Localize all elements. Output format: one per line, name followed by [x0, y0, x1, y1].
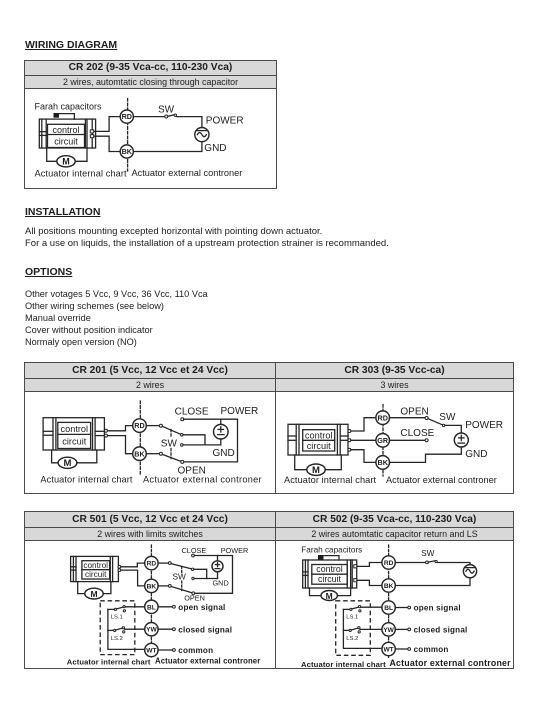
- wire actuator to RD: [108, 426, 133, 431]
- node OPEN: [192, 592, 195, 595]
- wire motor right: [77, 450, 97, 463]
- node RD: [382, 556, 395, 569]
- svg-text:GND: GND: [465, 449, 487, 460]
- actuator body: [288, 424, 348, 455]
- limit switch LS.1: [343, 608, 349, 610]
- heading OPTIONS: [25, 266, 72, 278]
- limit switch LS.1: [108, 608, 114, 610]
- capacitor C1: [318, 555, 324, 560]
- wire motor right: [75, 148, 87, 161]
- svg-text:SW: SW: [421, 548, 435, 558]
- wire RD to switch: [146, 425, 159, 427]
- wire source to BK: [390, 447, 462, 462]
- svg-text:BL: BL: [147, 604, 156, 611]
- svg-text:M: M: [62, 157, 70, 167]
- wire actuator to BK: [108, 436, 133, 454]
- control circuit block U1: [82, 561, 110, 579]
- wire capacitor to actuator: [59, 114, 75, 120]
- svg-text:RD: RD: [384, 560, 394, 567]
- terminal block pins: [354, 565, 357, 568]
- node CLOSE: [192, 554, 195, 557]
- wire motor left: [310, 588, 322, 596]
- wire BL to signal: [158, 606, 173, 608]
- table CR 201 / CR 303: [24, 362, 514, 494]
- terminal block pins: [90, 130, 93, 133]
- svg-text:open signal: open signal: [178, 603, 225, 612]
- motor M: [307, 464, 325, 475]
- wire YW to signal: [395, 628, 408, 630]
- capacitor C1: [54, 113, 60, 118]
- dashed separator internal/external: [382, 405, 384, 477]
- svg-text:control: control: [305, 430, 333, 440]
- node A: [191, 568, 193, 570]
- svg-text:control: control: [316, 564, 342, 574]
- wire CLOSE to OPEN power rail: [194, 556, 232, 594]
- node BK: [145, 579, 158, 592]
- wire motor left: [295, 455, 307, 470]
- switch SW: [425, 417, 428, 420]
- svg-text:circuit: circuit: [318, 574, 342, 584]
- svg-text:OPEN: OPEN: [184, 594, 205, 603]
- svg-text:Actuator internal chart: Actuator internal chart: [40, 474, 133, 484]
- svg-text:closed signal: closed signal: [178, 625, 232, 634]
- DC source G1: [212, 561, 223, 572]
- svg-text:Farah capacitors: Farah capacitors: [301, 546, 362, 555]
- wire motor right: [103, 582, 111, 594]
- node B: [192, 577, 194, 579]
- AC source G1: [463, 565, 476, 578]
- node BK: [376, 456, 390, 470]
- svg-text:Actuator external controner: Actuator external controner: [143, 474, 262, 484]
- wire capacitor to actuator: [323, 556, 339, 560]
- svg-text:BL: BL: [384, 605, 393, 612]
- switch SW pole 1: [168, 562, 171, 565]
- svg-text:circuit: circuit: [54, 136, 78, 146]
- svg-text:SW: SW: [173, 572, 187, 582]
- node OPEN: [181, 460, 184, 463]
- wire actuator to RD: [357, 563, 382, 567]
- svg-text:Actuator internal chart: Actuator internal chart: [284, 475, 377, 485]
- wire GR stub: [390, 439, 426, 441]
- wire switch to source: [176, 117, 202, 128]
- switch SW pole 1: [159, 424, 162, 427]
- limit switch box: [336, 601, 371, 656]
- svg-text:RD: RD: [147, 561, 157, 568]
- node BL: [145, 600, 158, 613]
- wire motor right: [325, 455, 341, 470]
- svg-text:Actuator external controner: Actuator external controner: [155, 657, 260, 666]
- wire actuator to RD: [351, 418, 376, 431]
- svg-text:M: M: [64, 458, 72, 469]
- wire motor left: [78, 582, 85, 594]
- svg-text:CLOSE: CLOSE: [400, 428, 434, 439]
- wire actuator to BK: [357, 580, 382, 585]
- actuator body: [303, 560, 357, 588]
- motor M: [58, 457, 77, 468]
- svg-text:Actuator external controner: Actuator external controner: [386, 475, 497, 485]
- svg-text:RD: RD: [378, 413, 388, 422]
- svg-text:circuit: circuit: [307, 441, 331, 451]
- svg-text:POWER: POWER: [206, 115, 244, 126]
- wire common rail: [108, 609, 145, 649]
- motor M: [85, 588, 103, 599]
- node WT: [145, 643, 158, 656]
- svg-text:GR: GR: [377, 436, 389, 445]
- wire source to BK: [395, 578, 470, 586]
- motor M: [321, 591, 337, 601]
- node RD: [120, 110, 133, 123]
- pin contacts: [118, 565, 121, 568]
- wire BK to switch: [158, 585, 168, 587]
- control circuit block U1: [48, 124, 85, 147]
- svg-text:LS.1: LS.1: [346, 614, 358, 620]
- wire node B to source minus: [183, 444, 221, 446]
- wire switch to source: [437, 563, 470, 565]
- svg-text:BK: BK: [122, 147, 133, 156]
- svg-text:LS.2: LS.2: [346, 636, 358, 642]
- node WT: [382, 642, 395, 655]
- heading INSTALLATION: [25, 206, 100, 218]
- svg-text:control: control: [61, 424, 89, 434]
- svg-text:closed signal: closed signal: [414, 626, 468, 635]
- svg-text:Actuator internal chart: Actuator internal chart: [67, 657, 151, 666]
- svg-text:BK: BK: [384, 583, 394, 590]
- table CR 202: [24, 60, 277, 189]
- svg-text:circuit: circuit: [85, 570, 107, 579]
- svg-text:GND: GND: [213, 448, 235, 459]
- switch linkage: [170, 430, 172, 438]
- svg-text:LS.2: LS.2: [111, 636, 123, 642]
- limit switch box: [100, 601, 135, 655]
- wire RD to switch: [395, 562, 425, 564]
- actuator body: [71, 556, 119, 581]
- svg-text:BK: BK: [147, 583, 157, 590]
- wire RD to switch: [158, 562, 168, 564]
- node B: [181, 444, 184, 447]
- motor M: [57, 156, 75, 167]
- actuator body: [39, 119, 95, 148]
- switch SW: [426, 561, 429, 564]
- svg-text:Actuator external controner: Actuator external controner: [132, 168, 243, 178]
- wire CLOSE to OPEN power rail: [184, 419, 238, 462]
- wire actuator to BK: [121, 570, 145, 586]
- wire node B to source minus: [194, 578, 217, 580]
- svg-text:CLOSE: CLOSE: [182, 546, 207, 555]
- svg-text:open signal: open signal: [414, 604, 461, 613]
- wire RD to switch: [390, 417, 426, 419]
- svg-text:M: M: [326, 591, 333, 601]
- pin contacts: [105, 429, 108, 432]
- svg-text:circuit: circuit: [62, 437, 86, 447]
- limit switch LS.2: [108, 629, 114, 631]
- svg-text:RD: RD: [134, 421, 144, 430]
- wire YW to signal: [158, 628, 173, 630]
- svg-text:RD: RD: [122, 112, 132, 121]
- wire WT to signal: [158, 649, 173, 651]
- svg-text:POWER: POWER: [465, 420, 503, 431]
- switch linkage: [181, 567, 183, 573]
- wire BL to signal: [395, 607, 408, 609]
- node RD: [145, 556, 158, 569]
- switch SW: [165, 115, 168, 118]
- svg-text:YW: YW: [146, 627, 157, 634]
- switch SW pole 2: [159, 452, 162, 455]
- wire actuator to RD: [121, 563, 145, 567]
- svg-text:WT: WT: [146, 648, 156, 655]
- AC source G1: [195, 128, 209, 142]
- svg-text:POWER: POWER: [221, 546, 249, 555]
- svg-text:SW: SW: [158, 105, 175, 116]
- svg-text:Actuator internal chart: Actuator internal chart: [35, 169, 128, 179]
- svg-text:YW: YW: [383, 627, 394, 634]
- svg-text:Actuator external controner: Actuator external controner: [390, 658, 512, 668]
- wire motor right: [337, 588, 350, 596]
- wire node A to GND rail: [194, 569, 207, 578]
- svg-text:SW: SW: [439, 412, 456, 423]
- node BK: [133, 447, 147, 461]
- wire motor left: [52, 450, 59, 463]
- svg-text:POWER: POWER: [221, 406, 259, 417]
- node RD: [133, 419, 147, 433]
- switch SW pole 2: [168, 585, 171, 588]
- actuator body: [43, 418, 104, 450]
- wire source to BK: [133, 142, 202, 152]
- dashed separator internal/external: [127, 99, 129, 172]
- wire motor left: [47, 148, 57, 161]
- node YW: [382, 623, 395, 636]
- node YW: [145, 623, 158, 636]
- control circuit block U1: [58, 422, 91, 448]
- svg-text:BK: BK: [134, 449, 145, 458]
- control circuit block U1: [303, 430, 335, 451]
- heading WIRING DIAGRAM: [25, 39, 117, 51]
- svg-text:control: control: [83, 561, 108, 570]
- svg-text:Actuator internal chart: Actuator internal chart: [301, 660, 386, 668]
- node GR: [376, 434, 390, 448]
- control circuit block U1: [312, 565, 347, 585]
- node CLOSE: [181, 418, 184, 421]
- node BK: [120, 145, 133, 158]
- wire node A to GND rail: [183, 435, 205, 445]
- node A: [181, 434, 184, 437]
- limit switch LS.2: [343, 629, 349, 631]
- wire actuator to BK: [94, 136, 120, 151]
- wire actuator to BK: [351, 450, 376, 463]
- wire WT to signal: [395, 648, 408, 650]
- svg-text:control: control: [52, 125, 79, 135]
- node BL: [382, 601, 395, 614]
- DC source G1: [454, 433, 468, 447]
- node RD: [376, 411, 390, 425]
- wire actuator to GR: [351, 439, 376, 441]
- wire common rail: [343, 609, 382, 648]
- svg-text:common: common: [178, 646, 213, 655]
- svg-text:SW: SW: [161, 439, 178, 450]
- svg-text:OPEN: OPEN: [400, 406, 428, 417]
- svg-text:WT: WT: [383, 647, 393, 654]
- table CR 501 / CR 502: [24, 511, 514, 669]
- wire BK to switch: [146, 453, 159, 455]
- pin contacts: [348, 430, 351, 433]
- dashed separator internal/external: [139, 401, 141, 474]
- dashed separator internal/external: [150, 545, 152, 657]
- svg-text:M: M: [90, 589, 97, 599]
- svg-text:Farah capacitors: Farah capacitors: [35, 102, 103, 112]
- wire switch to source: [445, 425, 461, 433]
- svg-text:BK: BK: [378, 458, 389, 467]
- svg-text:GND: GND: [204, 143, 226, 154]
- svg-text:LS.1: LS.1: [111, 614, 123, 620]
- svg-text:GND: GND: [213, 579, 229, 588]
- wire actuator to RD: [94, 117, 120, 132]
- DC source G1: [214, 424, 229, 439]
- svg-text:CLOSE: CLOSE: [175, 406, 209, 417]
- node BK: [382, 579, 395, 592]
- svg-text:common: common: [414, 645, 449, 654]
- wire RD to switch: [133, 116, 164, 118]
- dashed separator internal/external: [388, 545, 390, 659]
